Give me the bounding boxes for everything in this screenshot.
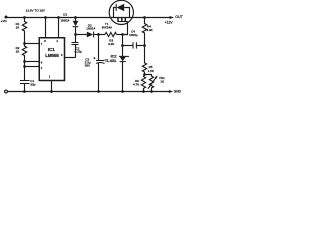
svg-text:1N914: 1N914 bbox=[60, 19, 69, 23]
svg-text:1000µ: 1000µ bbox=[129, 33, 138, 37]
capacitor C3 bbox=[98, 35, 100, 61]
transistor T1 body diode bbox=[114, 8, 116, 18]
svg-text:LM555: LM555 bbox=[45, 53, 59, 58]
svg-text:4.7K: 4.7K bbox=[133, 83, 139, 87]
node junction C3 tap bbox=[97, 33, 100, 36]
wire pin 4 supply bbox=[58, 18, 60, 39]
svg-text:3.3K: 3.3K bbox=[146, 28, 152, 32]
node bottom rail junction R6 bbox=[142, 90, 145, 93]
wire pin 3 output bbox=[65, 57, 76, 59]
wire gate lead down bbox=[123, 22, 128, 35]
node bottom rail junction VR1 bbox=[150, 90, 153, 93]
wire TL431 cathode column bbox=[122, 35, 124, 57]
svg-text:12.6V TO 16V: 12.6V TO 16V bbox=[26, 9, 46, 13]
node ground arrow bbox=[169, 90, 173, 93]
wire R4 to R5 bbox=[144, 46, 146, 63]
transistor T1 gate plate bbox=[117, 21, 127, 23]
resistor R5 bbox=[142, 62, 146, 75]
diode D2 1N914 bbox=[76, 34, 87, 36]
capacitor C4 bbox=[123, 45, 134, 47]
node junction C4 tap bbox=[121, 44, 124, 47]
wire top supply rail bbox=[6, 17, 170, 19]
node top rail junction at R1 bbox=[23, 16, 26, 19]
node junction R5/R6/VR1 bbox=[143, 73, 146, 76]
wire divider column down to C1 bbox=[24, 62, 26, 81]
svg-text:+Vin: +Vin bbox=[1, 19, 7, 23]
svg-text:TL431: TL431 bbox=[105, 58, 117, 63]
node bottom rail junction pin1 bbox=[50, 90, 53, 93]
svg-text:1K: 1K bbox=[16, 49, 20, 53]
svg-text:IC1: IC1 bbox=[48, 47, 56, 52]
node bottom rail junction TL431 bbox=[121, 90, 124, 93]
resistor R1 bbox=[22, 18, 26, 44]
node bottom-left terminal bbox=[5, 90, 8, 93]
capacitor C1 bbox=[20, 80, 30, 82]
op-amp IC1 LM555 body bbox=[39, 38, 64, 81]
svg-text:30p: 30p bbox=[30, 82, 35, 86]
svg-text:IRFZ40: IRFZ40 bbox=[102, 26, 112, 30]
svg-text:36V: 36V bbox=[85, 64, 91, 68]
wire pin 7 to divider bbox=[25, 43, 40, 45]
wire pin 2 bbox=[25, 66, 40, 68]
svg-text:OUT: OUT bbox=[175, 15, 183, 19]
resistor R6 bbox=[141, 75, 145, 92]
node +Vin terminal bbox=[5, 16, 8, 19]
svg-text:1K: 1K bbox=[16, 26, 20, 30]
resistor R2 bbox=[22, 44, 26, 62]
svg-text:GND: GND bbox=[174, 89, 182, 93]
node output arrow bbox=[170, 16, 174, 19]
node top rail junction D1 bbox=[74, 16, 77, 19]
resistor R4 bbox=[142, 18, 146, 46]
svg-text:1K: 1K bbox=[160, 80, 164, 84]
svg-text:1N914: 1N914 bbox=[86, 27, 95, 31]
wire pin 6 bbox=[25, 61, 40, 63]
resistor R3 bbox=[105, 32, 117, 36]
capacitor C2 bbox=[75, 35, 77, 43]
node junction pin2 bbox=[23, 65, 26, 68]
shunt regulator IC2 TL431 bbox=[119, 55, 129, 57]
potentiometer VR1 bbox=[145, 75, 154, 92]
potentiometer VR1 wiper arrow bbox=[148, 77, 156, 89]
node junction gate/R3/TL431 bbox=[121, 33, 124, 36]
node bottom rail junction C1 bbox=[23, 90, 26, 93]
wire bottom ground rail bbox=[6, 91, 169, 93]
svg-text:1.5K: 1.5K bbox=[148, 69, 154, 73]
node junction R2/pin6 bbox=[23, 60, 26, 63]
wire pin 1 to ground bbox=[51, 81, 53, 92]
node bottom rail junction C3 bbox=[97, 90, 100, 93]
svg-text:0.22µ: 0.22µ bbox=[75, 50, 83, 54]
svg-text:+12V: +12V bbox=[165, 21, 174, 25]
svg-text:D1: D1 bbox=[63, 12, 67, 16]
label C3 plus sign bbox=[93, 57, 95, 59]
node top rail junction pin8 bbox=[44, 16, 47, 19]
transistor T1 channel bars bbox=[117, 18, 119, 22]
node top rail junction R4 bbox=[143, 16, 146, 19]
diode D1 1N914 bbox=[75, 18, 77, 21]
node junction R1/R2/pin7 bbox=[23, 42, 26, 45]
svg-text:3.3K: 3.3K bbox=[108, 42, 114, 46]
node junction R4/C4 bbox=[143, 44, 146, 47]
node junction D1/C2/D2 bbox=[74, 33, 77, 36]
wire pin 8 supply bbox=[45, 18, 47, 39]
node top rail junction pin4 bbox=[57, 16, 60, 19]
transistor T1 IRFZ40 body circle bbox=[109, 0, 133, 24]
